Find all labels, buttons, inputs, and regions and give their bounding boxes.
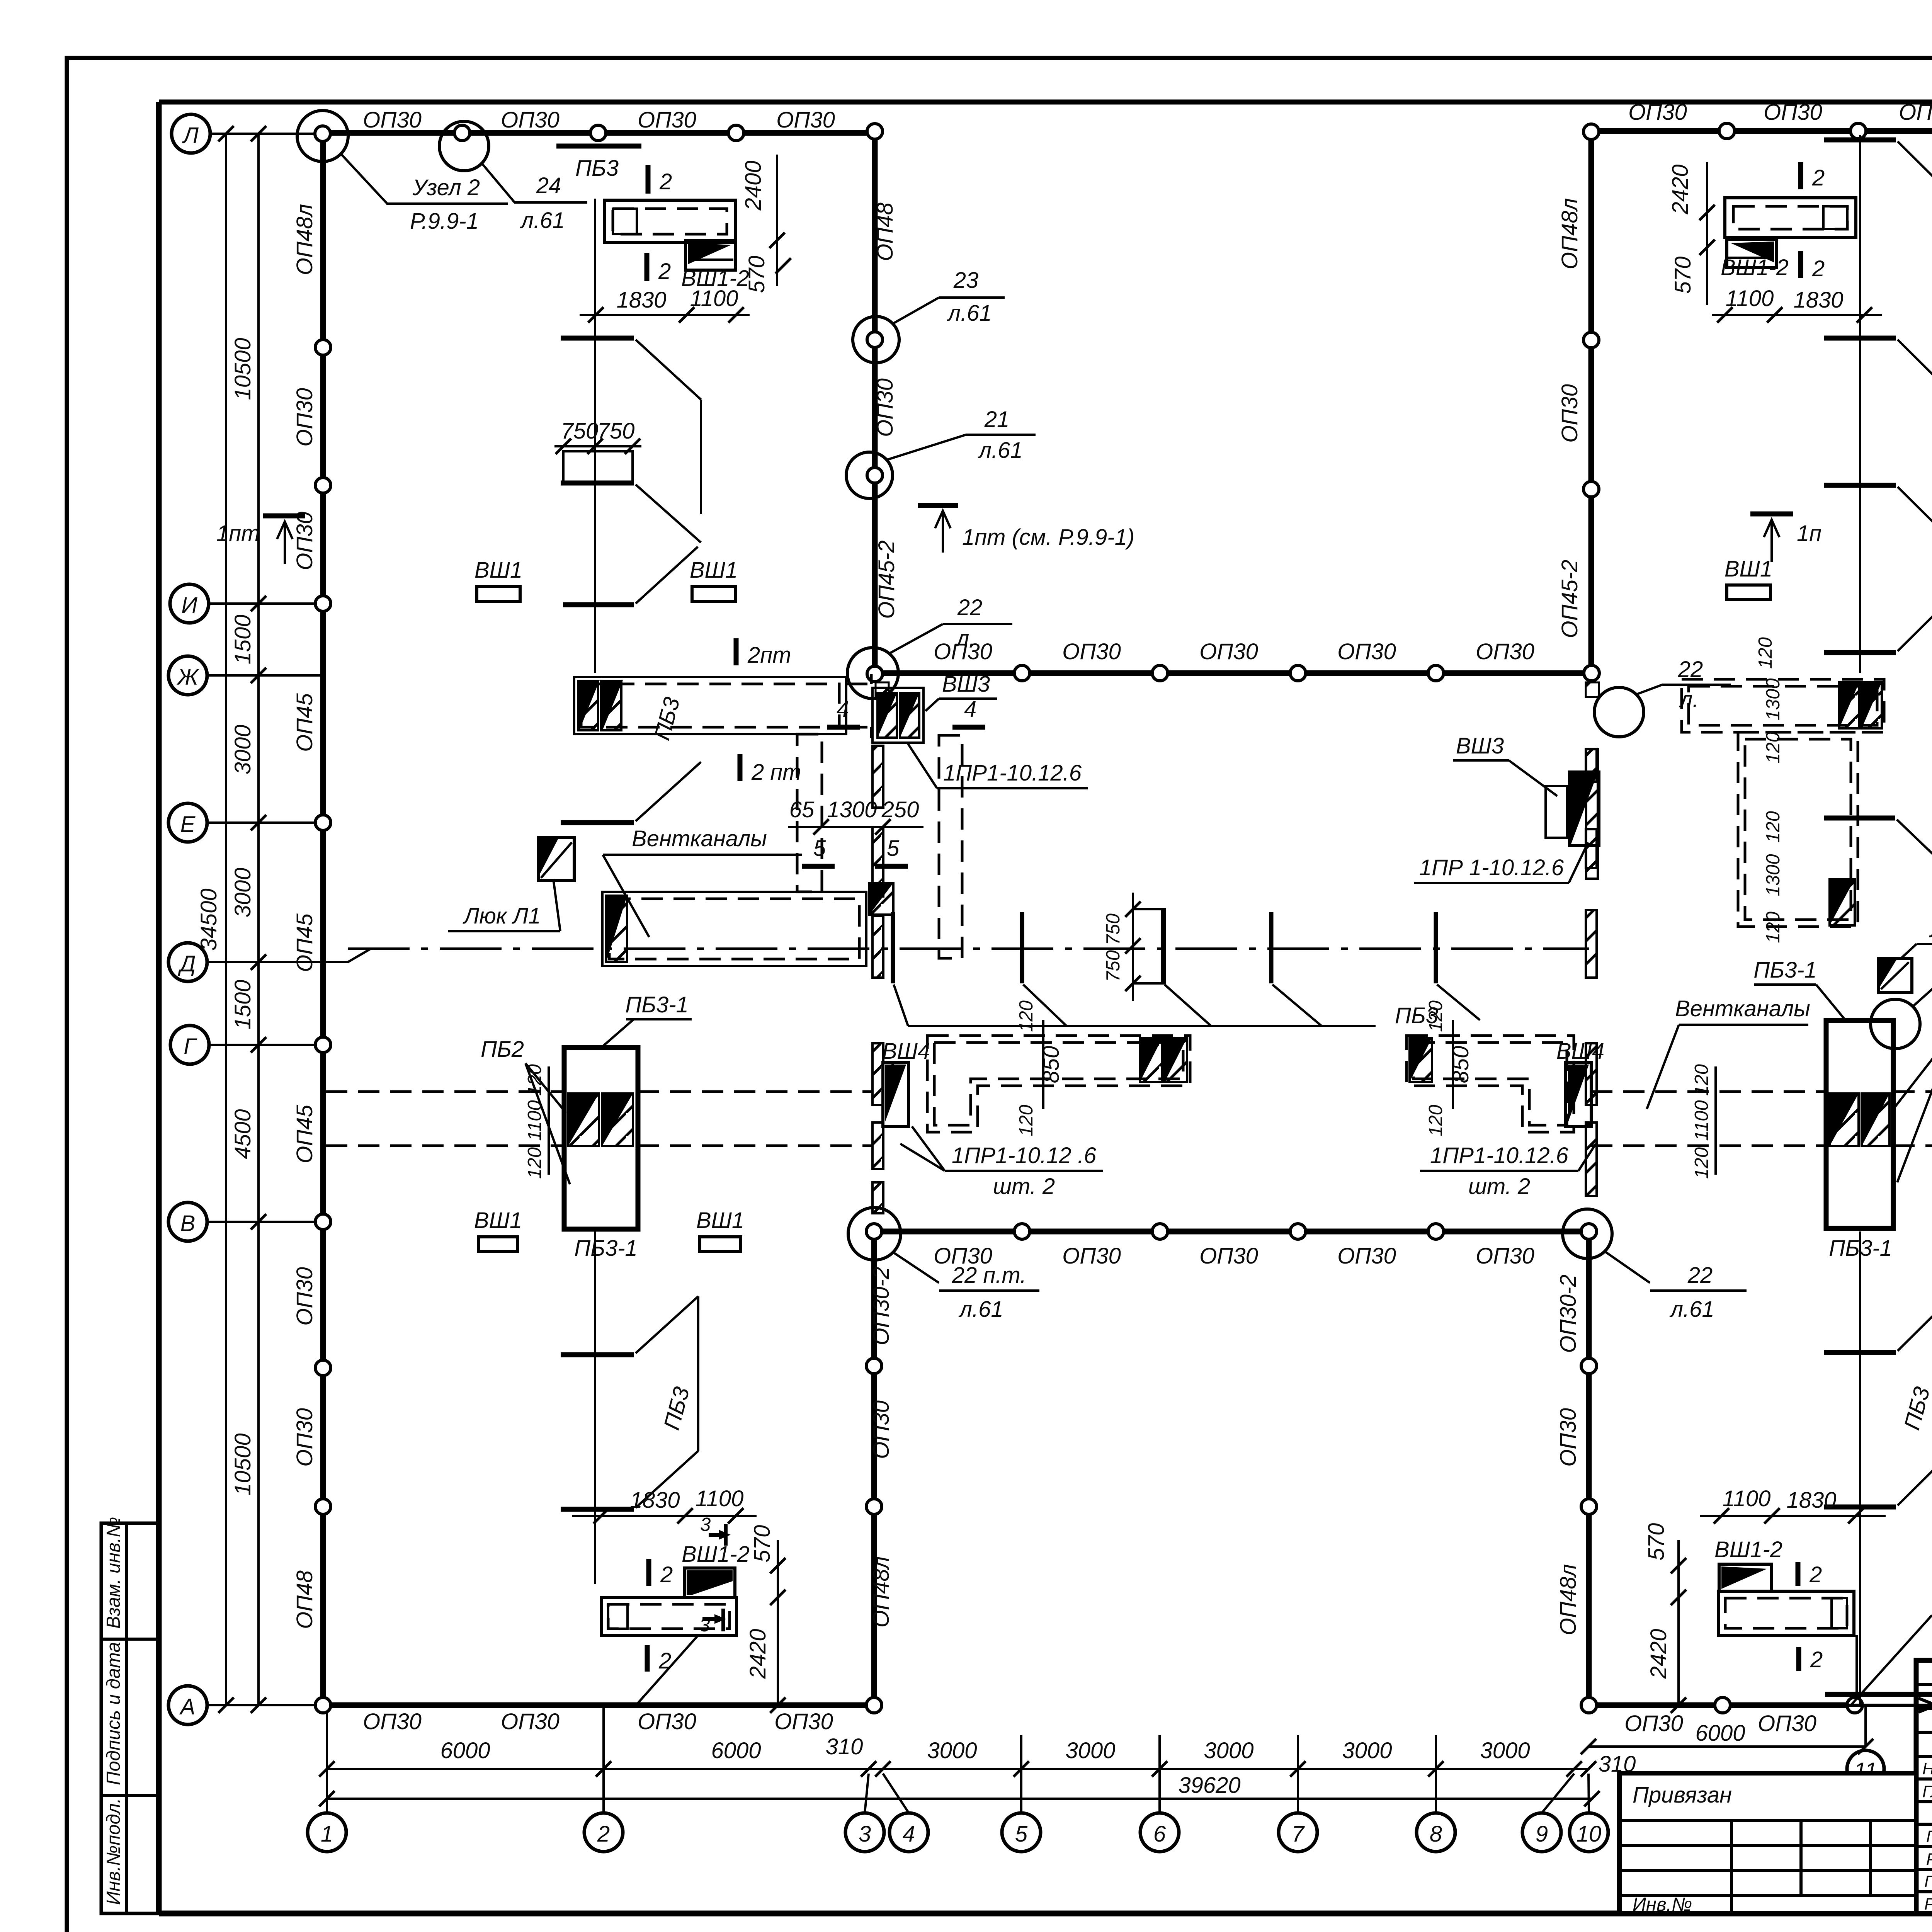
svg-text:Инв.№: Инв.№ xyxy=(1633,1894,1692,1915)
svg-text:2: 2 xyxy=(1809,1562,1822,1587)
duct from wall to beam xyxy=(326,1090,564,1093)
svg-text:4500: 4500 xyxy=(230,1109,255,1159)
svg-text:6000: 6000 xyxy=(1695,1721,1745,1746)
svg-text:ВШ1-2: ВШ1-2 xyxy=(1721,255,1789,280)
column axis stems xyxy=(327,1705,1589,1813)
svg-text:Рук.гр: Рук.гр xyxy=(1926,1850,1932,1869)
svg-text:23: 23 xyxy=(953,268,979,293)
svg-text:2: 2 xyxy=(597,1821,610,1847)
duct right step xyxy=(846,674,871,738)
VSh1-2 bottom unit xyxy=(684,1568,735,1597)
PB3 leader line xyxy=(908,1025,1376,1027)
svg-text:7: 7 xyxy=(1292,1821,1305,1847)
svg-text:Ж: Ж xyxy=(176,665,199,690)
svg-text:ВШ1: ВШ1 xyxy=(474,1208,522,1233)
svg-text:1830: 1830 xyxy=(1786,1488,1836,1513)
dims 1830 1100 bottom xyxy=(572,1515,757,1517)
svg-text:ОП30: ОП30 xyxy=(1628,100,1687,125)
svg-text:2: 2 xyxy=(1810,1647,1823,1672)
svg-text:ПБ3: ПБ3 xyxy=(575,156,619,181)
axis circle L xyxy=(172,114,210,153)
svg-text:570: 570 xyxy=(1670,257,1696,294)
svg-text:3000: 3000 xyxy=(927,1738,977,1763)
section mark 2 bottom xyxy=(645,253,650,281)
svg-text:ОП30: ОП30 xyxy=(1624,1711,1683,1736)
beam PB3-1 right xyxy=(1826,1020,1893,1228)
svg-text:5: 5 xyxy=(813,836,826,861)
svg-text:ОП30: ОП30 xyxy=(774,1709,833,1734)
vertical dashed arm xyxy=(797,734,822,892)
svg-text:ОП30: ОП30 xyxy=(363,107,422,133)
axis circle E xyxy=(168,803,207,842)
svg-text:ОП30: ОП30 xyxy=(638,1709,696,1734)
node circle 22 p.t. xyxy=(848,1207,901,1260)
svg-text:л.61: л.61 xyxy=(958,1297,1003,1322)
svg-text:8: 8 xyxy=(1430,1821,1442,1847)
svg-text:ОП30: ОП30 xyxy=(776,107,835,133)
svg-text:1100: 1100 xyxy=(690,286,738,311)
svg-text:6: 6 xyxy=(1153,1821,1166,1847)
svg-text:ОП30: ОП30 xyxy=(1062,1243,1121,1269)
Lyuk L1 xyxy=(539,838,574,881)
svg-text:10500: 10500 xyxy=(230,1433,255,1495)
svg-text:3: 3 xyxy=(700,1514,711,1535)
svg-text:10500: 10500 xyxy=(230,338,255,400)
svg-text:5: 5 xyxy=(887,836,900,861)
right VSh4 duct (mirror) xyxy=(1406,1036,1574,1132)
axis circle 2 xyxy=(584,1813,623,1852)
svg-text:ОП45: ОП45 xyxy=(292,693,317,752)
central top wall xyxy=(875,670,1592,676)
svg-text:ОП48л: ОП48л xyxy=(869,1556,894,1628)
svg-text:22 п.т.: 22 п.т. xyxy=(952,1263,1026,1288)
svg-text:1п: 1п xyxy=(1797,521,1821,546)
svg-text:ОП30-2: ОП30-2 xyxy=(1556,1274,1581,1353)
lower area construction line xyxy=(594,1231,596,1584)
PB3 beam mark on top wall xyxy=(556,144,641,149)
svg-text:Г: Г xyxy=(184,1034,197,1059)
lower vent duct xyxy=(602,892,866,966)
svg-text:ОП30: ОП30 xyxy=(872,378,898,437)
svg-text:ОП48л: ОП48л xyxy=(292,204,317,275)
left wing right wall upper OP48 xyxy=(872,130,878,673)
svg-text:Инв.№подл.: Инв.№подл. xyxy=(103,1798,124,1905)
svg-text:1830: 1830 xyxy=(1793,287,1843,313)
svg-text:Нач.АПМ-I: Нач.АПМ-I xyxy=(1922,1760,1932,1778)
svg-text:3000: 3000 xyxy=(1204,1738,1253,1763)
section mark 2 top xyxy=(646,165,651,194)
svg-text:ОП45: ОП45 xyxy=(292,913,317,972)
svg-text:ОП30: ОП30 xyxy=(501,1709,560,1734)
svg-text:120: 120 xyxy=(524,1064,545,1096)
svg-text:ОП30: ОП30 xyxy=(1899,100,1932,125)
left wing top wall xyxy=(323,130,875,136)
axis leader lines xyxy=(210,133,323,135)
svg-text:1300: 1300 xyxy=(1763,854,1784,896)
VSh1 boxes row I xyxy=(477,587,520,601)
svg-text:ОП30: ОП30 xyxy=(1556,1408,1581,1467)
beam PB3-1 xyxy=(564,1048,638,1229)
dims 1100 1830 xyxy=(1712,314,1882,316)
svg-text:шт. 2: шт. 2 xyxy=(993,1174,1055,1199)
svg-text:ОП30-2: ОП30-2 xyxy=(869,1267,894,1345)
svg-text:ОП30: ОП30 xyxy=(292,1267,317,1326)
VSh3 right unit xyxy=(1546,786,1567,838)
node circle 23 xyxy=(853,316,899,363)
750 750 dim xyxy=(554,445,641,447)
svg-text:ОП30: ОП30 xyxy=(869,1400,894,1459)
svg-text:ОП30: ОП30 xyxy=(1062,639,1121,664)
svg-text:A: A xyxy=(179,1694,196,1719)
svg-text:120: 120 xyxy=(1016,1000,1037,1032)
svg-text:ВШ3: ВШ3 xyxy=(1456,733,1504,759)
dims 120 1100 120 xyxy=(548,1066,550,1175)
svg-text:750: 750 xyxy=(561,418,599,444)
svg-text:ОП30: ОП30 xyxy=(1557,384,1582,443)
corner junction hatched squares xyxy=(876,682,889,697)
svg-text:Р.9.9-1: Р.9.9-1 xyxy=(410,209,479,234)
VSh1 boxes xyxy=(1727,585,1770,600)
axis circle 1 xyxy=(308,1813,346,1852)
svg-text:ВШ1: ВШ1 xyxy=(696,1208,744,1233)
node circle 24 xyxy=(439,121,489,171)
axis circle 5 xyxy=(1002,1813,1041,1852)
svg-text:Привязан: Привязан xyxy=(1633,1782,1732,1808)
svg-text:2420: 2420 xyxy=(1668,164,1693,214)
svg-text:120: 120 xyxy=(1755,637,1776,669)
axis circle 8 xyxy=(1417,1813,1455,1852)
svg-text:ВШ1-2: ВШ1-2 xyxy=(1714,1537,1782,1562)
VSh4 left wall unit xyxy=(883,1063,908,1126)
svg-text:3000: 3000 xyxy=(1480,1738,1530,1763)
svg-text:Узел 2: Узел 2 xyxy=(412,175,480,200)
duct wall to beam right xyxy=(1591,1090,1826,1093)
section 2 marks bottom unit xyxy=(646,1559,651,1586)
svg-text:2: 2 xyxy=(1812,256,1825,281)
panel joint circles on walls xyxy=(315,123,1932,1713)
title block outer frame xyxy=(1916,1660,1932,1913)
left extension box Privyazan xyxy=(1619,1773,1916,1913)
svg-text:ОП30: ОП30 xyxy=(1476,639,1534,664)
svg-text:л.: л. xyxy=(956,626,976,651)
axis circle I xyxy=(170,584,209,623)
svg-text:Разраб.: Разраб. xyxy=(1924,1895,1932,1913)
node circle Uzel 2 xyxy=(297,111,348,162)
svg-text:120: 120 xyxy=(1763,811,1784,843)
svg-text:1830: 1830 xyxy=(616,287,666,313)
svg-text:2420: 2420 xyxy=(1646,1629,1671,1679)
svg-text:л.61: л.61 xyxy=(978,438,1022,463)
dims 1830 1100 xyxy=(580,314,750,316)
svg-text:Гл.конст.: Гл.конст. xyxy=(1922,1782,1932,1801)
bottom construction lines xyxy=(1859,1231,1861,1705)
axis circle G xyxy=(170,1026,209,1064)
svg-text:34500: 34500 xyxy=(196,888,221,951)
svg-text:ОП48л: ОП48л xyxy=(1557,198,1582,269)
svg-text:750: 750 xyxy=(597,418,635,444)
axis circle 6 xyxy=(1140,1813,1179,1852)
svg-text:750: 750 xyxy=(1103,913,1124,945)
svg-text:1500: 1500 xyxy=(230,614,255,664)
svg-text:Подпись и дата: Подпись и дата xyxy=(103,1642,124,1785)
left wing bottom wall xyxy=(323,1702,874,1708)
VSh1 boxes row V xyxy=(479,1237,517,1252)
svg-text:2: 2 xyxy=(659,169,672,194)
svg-text:1ПР1-10.12.6: 1ПР1-10.12.6 xyxy=(1430,1143,1569,1168)
svg-text:22: 22 xyxy=(957,595,983,620)
dashed vertical channel xyxy=(939,735,962,958)
svg-text:2 пт: 2 пт xyxy=(751,760,801,785)
svg-text:1830: 1830 xyxy=(630,1488,680,1513)
grid row bubbles xyxy=(168,114,323,1725)
1pt symbol right xyxy=(1750,512,1793,517)
diagonal from bottom unit xyxy=(636,1636,698,1705)
dims 1100 1830 bottom right xyxy=(1700,1515,1886,1517)
right wing bottom wall xyxy=(1589,1702,1859,1708)
svg-text:24: 24 xyxy=(536,173,561,198)
svg-text:1: 1 xyxy=(321,1821,333,1847)
diagonal leader to 11 xyxy=(1851,1615,1932,1705)
svg-text:Гл.спец: Гл.спец xyxy=(1926,1827,1932,1846)
750x750 box on axis xyxy=(1133,909,1163,983)
svg-text:ОП45-2: ОП45-2 xyxy=(1557,560,1582,638)
svg-text:Вентканалы: Вентканалы xyxy=(632,826,767,851)
svg-text:1ПР 1-10.12.6: 1ПР 1-10.12.6 xyxy=(1419,855,1564,880)
svg-text:л.61: л.61 xyxy=(1669,1297,1714,1322)
svg-text:ВШ1: ВШ1 xyxy=(690,558,738,583)
svg-text:1100: 1100 xyxy=(524,1100,545,1141)
dash mark above duct xyxy=(563,602,634,607)
construction line col3 xyxy=(594,199,596,673)
node circle Uzel 9 xyxy=(1871,999,1920,1049)
svg-text:2: 2 xyxy=(658,259,671,284)
svg-text:ОП30: ОП30 xyxy=(1337,639,1396,664)
left wing left wall xyxy=(320,133,326,1705)
svg-text:2400: 2400 xyxy=(741,160,766,211)
grid column bubbles xyxy=(308,1705,1884,1852)
right wing 6000 dim xyxy=(1588,1745,1866,1748)
svg-text:22: 22 xyxy=(1687,1263,1713,1288)
dim 2400 / 570 right xyxy=(776,155,778,286)
left wing right wall lower OP30-2 xyxy=(871,1231,877,1705)
svg-text:Вентканалы: Вентканалы xyxy=(1675,996,1810,1021)
svg-text:ОП30: ОП30 xyxy=(638,107,696,133)
axis circle Zh xyxy=(168,656,207,695)
svg-text:120: 120 xyxy=(1425,1000,1446,1032)
section 2 marks xyxy=(1796,1562,1801,1586)
svg-text:120: 120 xyxy=(1691,1064,1712,1096)
svg-text:ОП48л: ОП48л xyxy=(1556,1564,1581,1635)
construction verticals xyxy=(1859,135,1861,673)
svg-text:Люк Л1: Люк Л1 xyxy=(463,903,541,929)
axis D dash-dot line xyxy=(209,961,348,963)
names column texts xyxy=(1922,1758,1932,1913)
axis circle 3 xyxy=(845,1813,884,1852)
VSh1-2 bottom unit right xyxy=(1719,1564,1772,1591)
svg-text:3000: 3000 xyxy=(230,867,255,917)
axis D ticks xyxy=(893,912,1436,983)
svg-text:120: 120 xyxy=(524,1147,545,1179)
VSh1-2 top unit right xyxy=(1725,198,1856,238)
svg-text:2пт: 2пт xyxy=(747,643,791,668)
svg-text:1ПР1-10.12.6: 1ПР1-10.12.6 xyxy=(943,760,1082,786)
svg-text:Е: Е xyxy=(180,812,196,837)
partition wall hatched strips right xyxy=(1586,749,1597,1196)
node circle 22 xyxy=(847,648,898,699)
svg-text:ОП48: ОП48 xyxy=(292,1570,317,1629)
svg-text:750: 750 xyxy=(1103,950,1124,982)
svg-text:1500: 1500 xyxy=(230,980,255,1029)
svg-text:ОП30: ОП30 xyxy=(1199,639,1258,664)
svg-text:И: И xyxy=(181,593,197,618)
svg-text:1100: 1100 xyxy=(1723,1486,1771,1511)
dims 2420 570 left xyxy=(1706,162,1708,305)
svg-text:ПБ2: ПБ2 xyxy=(481,1037,524,1062)
top band line xyxy=(159,100,1932,105)
svg-text:шт. 2: шт. 2 xyxy=(1468,1174,1530,1199)
svg-text:ПБ3-1: ПБ3-1 xyxy=(625,992,689,1017)
svg-text:6000: 6000 xyxy=(711,1738,761,1763)
left sidebar table xyxy=(101,1517,159,1913)
dims 570 2420 xyxy=(1677,1540,1680,1705)
left dim chain lines xyxy=(225,134,227,1705)
svg-text:1300: 1300 xyxy=(827,797,877,822)
svg-text:4: 4 xyxy=(964,697,976,722)
right wing left wall lower xyxy=(1586,1231,1592,1705)
svg-text:310: 310 xyxy=(826,1734,863,1759)
svg-text:л.61: л.61 xyxy=(520,208,565,233)
svg-text:3000: 3000 xyxy=(1065,1738,1115,1763)
node circle 21 xyxy=(846,452,893,498)
svg-text:л.61: л.61 xyxy=(947,301,992,326)
axis circle 9 xyxy=(1522,1813,1561,1852)
svg-text:250: 250 xyxy=(881,797,919,822)
svg-text:1пт: 1пт xyxy=(216,521,260,546)
svg-text:2420: 2420 xyxy=(745,1629,770,1679)
svg-text:ОП30: ОП30 xyxy=(1764,100,1822,125)
svg-text:3000: 3000 xyxy=(230,724,255,774)
dash mark row E xyxy=(561,820,634,825)
axis circle 10 xyxy=(1570,1813,1608,1852)
svg-text:ВШ1: ВШ1 xyxy=(474,558,522,583)
svg-text:ОП30: ОП30 xyxy=(1337,1243,1396,1269)
dash marks with diagonals xyxy=(1824,138,1896,143)
PB3 label and dash xyxy=(1824,816,1895,821)
svg-text:120: 120 xyxy=(1425,1105,1446,1136)
axis circle 11 half xyxy=(1847,1750,1884,1787)
dash marks lower xyxy=(561,1352,634,1357)
partition wall hatched strips left xyxy=(872,746,883,1213)
svg-text:Д: Д xyxy=(178,951,196,976)
axis circle D xyxy=(168,943,207,981)
svg-text:4: 4 xyxy=(903,1821,915,1847)
axis circle 7 xyxy=(1279,1813,1317,1852)
svg-text:1100: 1100 xyxy=(1726,286,1774,311)
svg-text:ОП30: ОП30 xyxy=(292,388,317,447)
name table horizontals xyxy=(1916,1684,1932,1892)
svg-text:ОП48: ОП48 xyxy=(872,202,898,261)
svg-text:2: 2 xyxy=(1812,165,1825,190)
right wing left wall upper xyxy=(1588,131,1594,673)
section marks 2 xyxy=(1798,162,1803,189)
svg-text:ВШ1: ВШ1 xyxy=(1725,556,1772,582)
svg-text:ОП45: ОП45 xyxy=(292,1104,317,1163)
svg-text:120: 120 xyxy=(1016,1105,1037,1136)
axis circle A xyxy=(168,1686,207,1725)
svg-text:570: 570 xyxy=(744,256,769,293)
upper vent duct PB3 xyxy=(574,677,846,734)
svg-text:Провер.: Провер. xyxy=(1924,1872,1932,1891)
panel labels: left wing top wall OP30 x4 xyxy=(292,100,1932,1736)
svg-text:3000: 3000 xyxy=(1342,1738,1392,1763)
svg-text:120: 120 xyxy=(1763,912,1784,943)
VSh4 right wall unit xyxy=(1566,1063,1591,1126)
node circle right top 22 xyxy=(1594,687,1644,737)
svg-text:ОП30: ОП30 xyxy=(501,107,560,133)
svg-text:ОП30: ОП30 xyxy=(292,512,317,570)
upper vent cross xyxy=(1682,679,1884,732)
dims 570 2420 xyxy=(777,1540,779,1705)
svg-text:В: В xyxy=(180,1211,196,1236)
total dim line 39620 xyxy=(327,1798,1592,1800)
svg-text:2: 2 xyxy=(660,1562,673,1587)
right wing top wall xyxy=(1591,128,1932,134)
small vent box below xyxy=(869,883,893,915)
2pt marks xyxy=(734,638,739,665)
VSh1-2 top unit xyxy=(604,200,735,243)
svg-text:ОП30: ОП30 xyxy=(292,1408,317,1467)
VSh3 left unit xyxy=(872,688,923,743)
arrow element on bottom wall xyxy=(1825,1692,1932,1697)
svg-text:ОП30: ОП30 xyxy=(363,1709,422,1734)
svg-text:3: 3 xyxy=(859,1821,871,1847)
svg-text:ОП30: ОП30 xyxy=(1476,1243,1534,1269)
svg-text:Взам. инв.№: Взам. инв.№ xyxy=(103,1517,124,1629)
svg-text:1пт (см. Р.9.9-1): 1пт (см. Р.9.9-1) xyxy=(962,525,1134,550)
svg-text:ВШ4: ВШ4 xyxy=(882,1039,930,1064)
svg-text:4: 4 xyxy=(837,697,849,722)
beam dash marks with diagonals xyxy=(561,336,634,341)
bottom dim chain line xyxy=(327,1768,1588,1770)
svg-text:10: 10 xyxy=(1577,1821,1602,1847)
left VSh4 duct xyxy=(927,1036,1190,1132)
svg-text:5: 5 xyxy=(1015,1821,1028,1847)
duct continuation beam to wall xyxy=(638,1092,872,1146)
svg-text:120: 120 xyxy=(1691,1147,1712,1179)
svg-text:ВШ1-2: ВШ1-2 xyxy=(682,1542,750,1567)
svg-text:120: 120 xyxy=(1763,732,1784,764)
1pt (sm. R.9.9-1) xyxy=(918,503,958,508)
svg-text:ПБ3-1: ПБ3-1 xyxy=(574,1236,638,1261)
svg-text:ОП30: ОП30 xyxy=(1199,1243,1258,1269)
svg-text:ВШ3: ВШ3 xyxy=(942,672,990,697)
svg-text:ОП45-2: ОП45-2 xyxy=(874,540,899,619)
dash marks bottom xyxy=(1824,1350,1896,1355)
svg-text:21: 21 xyxy=(984,407,1010,432)
svg-text:65: 65 xyxy=(789,797,815,822)
svg-text:ПБ3-1: ПБ3-1 xyxy=(1753,957,1817,983)
svg-text:1300: 1300 xyxy=(1763,678,1784,720)
svg-text:ОП30: ОП30 xyxy=(1758,1711,1816,1736)
svg-text:6000: 6000 xyxy=(440,1738,490,1763)
svg-text:Л: Л xyxy=(182,123,199,148)
axis circle V xyxy=(168,1202,207,1241)
axis circle 4 xyxy=(889,1813,928,1852)
svg-text:570: 570 xyxy=(1644,1523,1669,1561)
svg-text:2: 2 xyxy=(658,1648,671,1673)
node circle right bottom xyxy=(1563,1209,1612,1259)
svg-text:1100: 1100 xyxy=(1691,1100,1712,1141)
